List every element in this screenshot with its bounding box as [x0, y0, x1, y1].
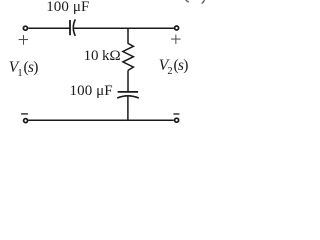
wire: C2 bottom lead [127, 96, 129, 120]
wire: top rail, right segment (junction to terminal) [128, 27, 174, 29]
wire: bottom rail, left segment [28, 119, 128, 121]
wire: top rail, left segment (terminal to C1) [28, 27, 69, 29]
label: R value 10 kOhm [84, 48, 121, 65]
stray cropped text marks at top-right edge [186, 0, 205, 3]
terminal: bottom-left port node of V1 [24, 119, 28, 123]
wire: bottom rail, right segment [128, 119, 174, 121]
wire: resistor to C2 lead [127, 70, 129, 91]
capacitor C2 100 uF (shunt, flat plate) [118, 91, 138, 93]
label: minus polarity at V1 bottom [21, 113, 28, 115]
label: plus polarity at V2 top [171, 35, 181, 44]
label: minus polarity at V2 bottom [173, 113, 179, 115]
terminal: top-right port node of V2 [175, 26, 179, 30]
label: plus polarity at V1 top [19, 35, 28, 45]
capacitor C1 100 uF (series, flat plate) [69, 20, 71, 35]
label: V2(s) output voltage [159, 57, 188, 77]
terminal: top-left port node of V1 [23, 26, 27, 30]
label: V1(s) source voltage [9, 59, 38, 79]
wire: top rail, middle segment (C1 to junction) [74, 27, 128, 29]
resistor R 10 kOhm (vertical zigzag) [123, 43, 133, 70]
label: C1 value 100 uF [46, 0, 89, 16]
capacitor C2 100 uF (curved plate) [117, 96, 139, 98]
wire: resistor top lead [127, 28, 129, 44]
capacitor C1 100 uF (curved plate) [73, 19, 75, 36]
label: C2 value 100 uF [70, 83, 113, 100]
terminal: bottom-right port node of V2 [175, 118, 179, 122]
